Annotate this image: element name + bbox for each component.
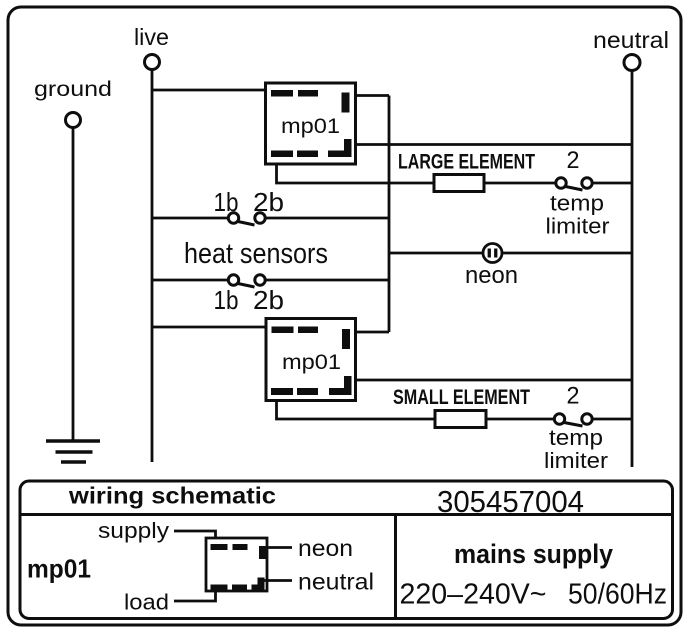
svg-text:temp: temp xyxy=(550,191,604,216)
label temp limiter (TL2) xyxy=(544,425,608,473)
wire ground xyxy=(72,128,75,442)
svg-text:wiring schematic: wiring schematic xyxy=(68,483,276,509)
svg-text:2b: 2b xyxy=(253,285,284,315)
svg-text:mp01: mp01 xyxy=(27,554,91,584)
svg-text:live: live xyxy=(134,24,169,50)
wire load to legend connector xyxy=(174,592,216,601)
svg-text:neutral: neutral xyxy=(298,569,374,595)
wire U1 neutral pin to neutral bus xyxy=(355,143,632,146)
svg-text:305457004: 305457004 xyxy=(437,484,584,519)
svg-text:temp: temp xyxy=(549,425,603,450)
label 1b 2b (upper heat sensor) xyxy=(214,187,285,217)
wire U1 neon pin to right bus xyxy=(355,94,389,97)
svg-text:mains supply: mains supply xyxy=(454,539,613,569)
switch heat sensor upper (1b 2b) xyxy=(228,213,265,225)
wire live to heat sensor switch (lower) xyxy=(152,279,229,282)
wire live to U1 supply pin xyxy=(152,89,267,92)
wire right bus xyxy=(388,96,391,333)
label temp limiter (TL1) xyxy=(546,191,610,239)
wire U2 neutral pin to neutral bus xyxy=(356,379,633,382)
svg-text:neon: neon xyxy=(465,262,518,289)
wire heat sensor lower to right bus xyxy=(265,279,389,282)
legend panel xyxy=(20,481,673,619)
svg-text:neutral: neutral xyxy=(593,27,669,53)
switch heat sensor lower (1b 2b) xyxy=(228,275,265,287)
switch temp limiter TL1 xyxy=(556,178,592,190)
lamp neon xyxy=(483,244,502,263)
wire neutral bus xyxy=(631,71,634,468)
wire TL2 to neutral bus xyxy=(592,418,632,421)
svg-text:mp01: mp01 xyxy=(281,115,340,138)
svg-text:load: load xyxy=(124,590,169,615)
node neutral xyxy=(624,55,640,71)
node ground xyxy=(66,113,81,128)
svg-text:220–240V~: 220–240V~ xyxy=(400,579,547,611)
wire U2 neon pin to right bus xyxy=(356,331,390,334)
wire large element to temp limiter TL1 xyxy=(484,182,556,185)
switch temp limiter TL2 xyxy=(554,414,592,426)
svg-text:1b: 1b xyxy=(214,285,239,315)
svg-text:mp01: mp01 xyxy=(282,351,341,374)
svg-text:50/60Hz: 50/60Hz xyxy=(568,579,667,611)
wire supply to legend connector xyxy=(174,531,216,538)
node live xyxy=(145,55,160,70)
ground xyxy=(46,441,100,462)
connector mp01 (legend) xyxy=(206,538,267,591)
wire U2 load pin to small element xyxy=(277,401,436,420)
svg-text:limiter: limiter xyxy=(546,214,610,239)
svg-text:supply: supply xyxy=(98,518,169,543)
svg-text:ground: ground xyxy=(34,77,112,101)
svg-text:LARGE ELEMENT: LARGE ELEMENT xyxy=(398,151,535,174)
wire neon lamp to neutral bus xyxy=(502,252,632,255)
svg-text:2: 2 xyxy=(567,383,580,410)
wire small element to temp limiter TL2 xyxy=(486,418,555,421)
wire right bus to neon lamp xyxy=(389,252,483,255)
connector U1 mp01 xyxy=(266,83,356,164)
wire live to U2 supply pin xyxy=(152,326,267,329)
svg-text:limiter: limiter xyxy=(544,448,608,473)
wire legend connector to neutral label xyxy=(261,579,292,582)
svg-text:SMALL ELEMENT: SMALL ELEMENT xyxy=(393,386,530,409)
resistor large element xyxy=(434,175,484,192)
connector U2 mp01 xyxy=(266,319,356,401)
wire TL1 to neutral bus xyxy=(592,182,632,185)
svg-text:2: 2 xyxy=(567,147,580,174)
wire U1 load pin to large element xyxy=(277,164,435,183)
wire live to heat sensor switch 1b (upper) xyxy=(152,217,229,220)
wire live bus xyxy=(151,70,154,463)
wire legend connector to neon label xyxy=(261,546,292,549)
wire heat sensor upper to right bus xyxy=(265,217,389,220)
label 1b 2b (lower heat sensor) xyxy=(214,285,285,315)
svg-text:neon: neon xyxy=(298,535,353,561)
svg-text:heat sensors: heat sensors xyxy=(184,238,328,270)
resistor small element xyxy=(435,411,486,428)
